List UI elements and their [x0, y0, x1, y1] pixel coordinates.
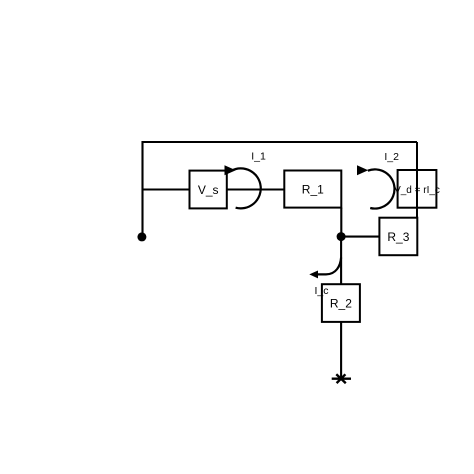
svg-text:I_c: I_c: [314, 285, 328, 297]
wire R_1 to node B: [340, 208, 342, 237]
node B junction: [337, 232, 346, 241]
voltage source V_s: [190, 171, 227, 209]
node left: [137, 232, 146, 241]
svg-text:V_d = rI_c: V_d = rI_c: [394, 185, 440, 196]
wire left vertical: [141, 141, 143, 237]
resistor R_1: [284, 171, 341, 208]
controlling current arrow I_c: [309, 258, 341, 298]
wire R_2 to ground: [340, 322, 342, 379]
wire V_s to R_1: [227, 188, 284, 190]
dependent source V_d = rI_c: [398, 170, 437, 208]
svg-text:R_1: R_1: [302, 182, 324, 196]
resistor R_2: [322, 284, 360, 322]
svg-text:R_2: R_2: [330, 296, 352, 310]
svg-text:I_1: I_1: [251, 151, 266, 163]
svg-text:I_2: I_2: [384, 151, 399, 163]
value label V_d = rI_c: [394, 185, 440, 196]
wire left node to V_s: [143, 188, 190, 190]
wire right vertical through V_d: [416, 142, 418, 255]
resistor R_3: [379, 218, 417, 256]
wire node B to R_2: [340, 237, 342, 285]
svg-text:V_s: V_s: [198, 183, 219, 197]
wire node B to R_3: [341, 236, 379, 238]
wire top horizontal: [142, 141, 418, 143]
mesh current arrow I_1: [225, 151, 266, 209]
ground: [332, 374, 351, 383]
mesh current arrow I_2: [357, 151, 399, 209]
svg-text:R_3: R_3: [387, 230, 409, 244]
